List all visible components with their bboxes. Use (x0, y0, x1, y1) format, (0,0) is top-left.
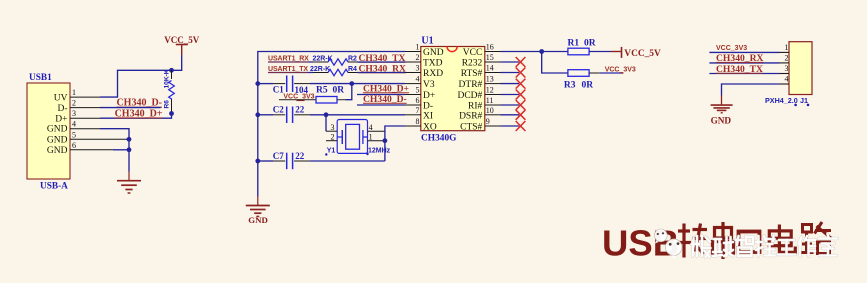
svg-text:1: 1 (369, 133, 373, 142)
IC notch (447, 47, 457, 52)
svg-text:C2: C2 (273, 105, 284, 115)
power port VCC_5V (right) (611, 47, 661, 59)
svg-text:1: 1 (416, 43, 420, 52)
svg-text:D-: D- (423, 102, 433, 112)
svg-text:CH340_D+: CH340_D+ (363, 83, 409, 94)
wire R1 to VCC_5V (589, 51, 611, 53)
svg-text:Y1: Y1 (327, 147, 336, 154)
svg-text:5: 5 (72, 130, 76, 139)
svg-text:4: 4 (416, 75, 420, 84)
IC U1 CH340G body (421, 47, 485, 131)
svg-text:XI: XI (423, 111, 433, 121)
svg-text:11: 11 (486, 96, 494, 105)
wire R6 to D+ (100, 114, 172, 119)
capacitor C7 22 (273, 151, 310, 169)
crystal box (337, 120, 367, 154)
pin 3 stub (326, 130, 337, 132)
svg-text:CH340G: CH340G (421, 133, 457, 143)
svg-text:R4: R4 (348, 66, 357, 73)
wire pin5 to rail (126, 138, 129, 140)
wire GND rail left (258, 52, 405, 197)
svg-text:J1: J1 (800, 96, 808, 105)
svg-text:CH340_TX: CH340_TX (716, 64, 763, 75)
svg-text:RXD: RXD (423, 69, 443, 79)
title char 电 (769, 225, 795, 253)
svg-text:VCC_5V: VCC_5V (164, 35, 199, 45)
svg-text:PXH4_2.0: PXH4_2.0 (765, 96, 798, 105)
crystal Y1 12MHz (325, 115, 391, 156)
resistor R6 10K-K (163, 69, 174, 113)
svg-text:2: 2 (331, 133, 335, 142)
power port VCC_5V (USB side) (164, 35, 199, 55)
junction pin6 (127, 147, 132, 152)
svg-text:14: 14 (486, 64, 494, 73)
resistor R5 0R (279, 86, 346, 104)
svg-text:USART1_TX: USART1_TX (268, 66, 308, 73)
svg-text:DSR#: DSR# (459, 111, 482, 121)
svg-text:0R: 0R (582, 81, 594, 91)
svg-text:3: 3 (72, 109, 76, 118)
wire D- stub row6 (357, 104, 405, 106)
svg-text:VCC: VCC (463, 48, 483, 58)
title char 口 (739, 232, 760, 253)
pin 2 stub (70, 107, 100, 109)
svg-text:2: 2 (72, 99, 76, 108)
pin 6 stub (70, 149, 113, 151)
svg-text:GND: GND (47, 146, 68, 156)
svg-text:0R: 0R (333, 86, 345, 96)
title char 串 (713, 222, 734, 259)
wire J1 pin4 to ground (722, 84, 780, 96)
designator PXH4_2.0 J1 (765, 96, 809, 106)
svg-text:R2: R2 (348, 56, 357, 63)
svg-text:TXD: TXD (423, 59, 443, 69)
watermark text 微联智控工作室 (692, 234, 838, 257)
right pin stubs 16-9 (485, 52, 501, 127)
wire VCC pin16 (501, 51, 542, 53)
right electrode (363, 136, 368, 138)
left pin numbers (416, 43, 420, 127)
wire rail to C2 (258, 114, 274, 116)
svg-text:9: 9 (486, 117, 490, 126)
ground symbol below USB (117, 172, 141, 194)
svg-text:D+: D+ (55, 115, 67, 125)
svg-text:4: 4 (369, 123, 373, 132)
svg-text:3: 3 (331, 123, 335, 132)
svg-text:22: 22 (295, 105, 305, 115)
wire to R1 (542, 51, 568, 53)
pin 5 stub (70, 138, 126, 140)
no-connect X pin15 (516, 57, 526, 131)
svg-text:R5: R5 (316, 86, 328, 96)
pin 1 stub (70, 96, 100, 98)
junction rail C1 (255, 81, 260, 86)
svg-text:V3: V3 (423, 80, 435, 90)
svg-text:USB-A: USB-A (40, 182, 68, 192)
svg-text:DCD#: DCD# (457, 91, 482, 101)
connector USB1 body (27, 83, 70, 179)
svg-text:8: 8 (416, 117, 420, 126)
power port VCC_3V3 (right) (605, 66, 636, 73)
svg-text:XO: XO (423, 123, 437, 133)
svg-text:10K-K: 10K-K (163, 69, 170, 88)
svg-text:12MHz: 12MHz (368, 147, 391, 154)
svg-text:VCC_3V3: VCC_3V3 (716, 45, 747, 52)
wire J1 pin2 (709, 62, 779, 64)
right pin names (457, 48, 482, 133)
wire J1 pin1 (709, 51, 779, 53)
watermark logo big bubble (665, 239, 682, 259)
wire UV to VCC riser (100, 55, 182, 97)
wire crystal right riser (385, 126, 405, 161)
wire rail to C7 (258, 160, 274, 162)
svg-text:VCC_5V: VCC_5V (624, 49, 661, 59)
svg-text:U1: U1 (421, 35, 433, 46)
svg-text:22: 22 (295, 151, 305, 161)
svg-text:GND: GND (47, 135, 68, 145)
no-connect wires pins 15..9 (501, 62, 520, 126)
svg-text:D+: D+ (423, 91, 435, 101)
svg-text:USART1_RX: USART1_RX (268, 56, 309, 63)
wire C7 to crystal riser (310, 160, 385, 162)
wire pin6 to rail (113, 149, 129, 151)
pin 4 stub (70, 128, 100, 130)
resistor R1 0R (568, 38, 596, 55)
watermark logo small bubble (654, 229, 667, 244)
junction R5 riser (349, 81, 354, 86)
svg-text:UV: UV (54, 94, 68, 104)
capacitor C2 22 (273, 105, 310, 123)
svg-text:0R: 0R (584, 38, 596, 48)
svg-text:GND: GND (423, 48, 444, 58)
left pin names (423, 48, 444, 133)
pin 3 stub (70, 117, 100, 119)
svg-text:10: 10 (486, 106, 494, 115)
title char 转 (677, 224, 708, 258)
svg-text:5: 5 (416, 86, 420, 95)
capacitor C1 104 (273, 76, 310, 95)
svg-text:16: 16 (486, 43, 494, 52)
wire C2 to pin7 (310, 114, 405, 116)
ground symbol J1 (711, 96, 733, 126)
svg-text:R6: R6 (163, 100, 170, 109)
wire row3 right (357, 72, 405, 74)
svg-text:12: 12 (486, 86, 494, 95)
ground symbol middle (246, 197, 270, 225)
left pin stubs 1-8 (405, 52, 421, 127)
junction rail C2 (255, 112, 260, 117)
junction crystal pin1 (383, 138, 388, 143)
junction rail C7 (255, 159, 260, 164)
J1 pin numbers (785, 43, 789, 84)
wire C1 to pin4 (310, 83, 405, 85)
svg-text:CTS#: CTS# (460, 123, 482, 133)
junction at VCC/R6 (169, 68, 174, 73)
wire row3 left (268, 72, 313, 74)
svg-text:6: 6 (416, 96, 420, 105)
J1 pin 3 stub (780, 73, 790, 75)
J1 pin 1 stub (780, 51, 790, 53)
svg-text:GND: GND (711, 115, 732, 125)
resistor R2 (313, 56, 357, 65)
svg-text:D-: D- (57, 104, 67, 114)
junction VCC split (539, 49, 544, 54)
svg-text:3: 3 (785, 64, 789, 73)
svg-text:VCC_3V3: VCC_3V3 (605, 66, 636, 73)
wire D- stub (100, 107, 161, 109)
svg-text:R232: R232 (462, 59, 483, 69)
svg-text:6: 6 (72, 141, 76, 150)
wire row2 right (357, 61, 405, 63)
junction R6 bottom (169, 111, 174, 116)
wire D+ stub row5 (357, 94, 405, 96)
wire XI riser (325, 115, 327, 131)
junction pin5 (127, 137, 132, 142)
power port VCC_3V3 (R5 input) (283, 93, 314, 100)
wire rail to C1 (258, 83, 274, 85)
svg-text:3: 3 (416, 64, 420, 73)
svg-text:7: 7 (416, 106, 420, 115)
svg-text:1: 1 (785, 43, 789, 52)
svg-text:RTS#: RTS# (461, 69, 483, 79)
svg-text:4: 4 (785, 75, 789, 84)
junction crystal riser (324, 112, 329, 117)
wire R3 to VCC_3V3 (589, 72, 600, 74)
crystal inner rect (346, 124, 360, 149)
right pin numbers (486, 43, 494, 127)
title char 路 (801, 222, 832, 254)
left electrode (337, 130, 342, 144)
svg-text:CH340_D-: CH340_D- (363, 94, 407, 105)
svg-text:15: 15 (486, 53, 494, 62)
J1 pin 2 stub (780, 62, 790, 64)
svg-text:13: 13 (486, 75, 494, 84)
svg-text:C7: C7 (273, 151, 284, 161)
svg-text:4: 4 (72, 120, 76, 129)
wire GND pins rail (100, 129, 129, 172)
pin 1 stub (368, 140, 385, 142)
wire junction down to R3 (542, 52, 568, 74)
svg-text:R3: R3 (564, 81, 576, 91)
wire row2 left (268, 61, 313, 63)
svg-text:2: 2 (416, 53, 420, 62)
wire J1 pin3 (709, 73, 779, 75)
connector J1 body (789, 42, 812, 95)
J1 pin 4 stub (780, 83, 790, 85)
svg-text:GND: GND (47, 125, 68, 135)
svg-text:CH340_D+: CH340_D+ (115, 108, 163, 119)
svg-text:CH340_RX: CH340_RX (716, 53, 764, 64)
svg-text:R1: R1 (568, 38, 580, 48)
svg-text:GND: GND (248, 215, 268, 225)
resistor R3 0R (564, 70, 593, 91)
svg-text:1: 1 (72, 88, 76, 97)
svg-text:DTR#: DTR# (459, 80, 483, 90)
svg-text:2: 2 (785, 54, 789, 63)
pin 4 stub (368, 130, 385, 132)
svg-text:USB1: USB1 (29, 73, 52, 83)
resistor R4 (313, 66, 357, 76)
svg-text:RI#: RI# (468, 102, 483, 112)
wire R5 to V3 row (346, 84, 352, 100)
pin 2 stub (326, 140, 337, 142)
